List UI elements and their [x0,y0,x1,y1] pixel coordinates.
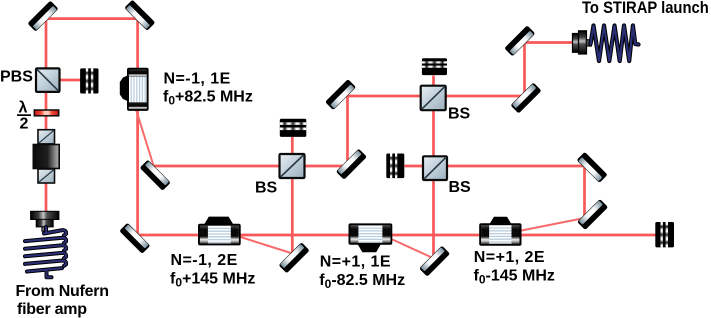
wire beam H3a M3 to BS1 to M7 [151,165,349,168]
svg-text:BS: BS [255,179,278,196]
AOM U2 (horizontal, N=-1 2E) [198,217,241,246]
mirror M2 second top [124,0,155,31]
wire beam V6 M9 to M10 [523,43,526,98]
wire beam V2 vertical through AOM1 [136,17,139,236]
fiber spool bottom left [25,227,66,277]
wire beam V4 M7 to M6 [346,95,349,166]
optical isolator body [33,145,59,169]
AOM U3 (horizontal, N=+1 1E) [349,223,393,252]
svg-text:fiber amp: fiber amp [17,301,87,318]
svg-text:f0+82.5 MHz: f0+82.5 MHz [163,88,253,107]
svg-text:N=+1, 1E: N=+1, 1E [320,253,391,270]
wire beam H6 long bottom horizontal [137,234,656,237]
beam dump D2 above BS1 (horizontal slats) [280,119,307,137]
AOM U1 (vertical, N=-1 1E) [120,68,149,111]
half-wave plate [34,110,58,116]
optical isolator output cube [38,169,55,183]
svg-text:N=-1, 2E: N=-1, 2E [171,252,238,269]
svg-text:f0-145 MHz: f0-145 MHz [474,268,555,287]
mirror M8 below BS3 [419,246,450,277]
label To STIRAP launch [582,0,709,17]
beam dump D3 above BS2 (horizontal slats) [422,58,447,75]
svg-text:f0+145 MHz: f0+145 MHz [170,270,255,289]
fiber coupler top right [573,31,592,54]
wire beam H3b D4 to BS3 to M11 [405,165,586,168]
beam splitter BS2 [421,86,446,111]
svg-text:BS: BS [449,179,472,196]
wire beam V7 M11 to M12 [583,166,586,219]
svg-text:2: 2 [20,116,29,133]
mirror M12 far right lower [577,199,608,230]
fiber coupler bottom left [31,211,59,231]
beam dump D1 right of PBS (vertical slats) [80,68,98,93]
mirror M7 mid lower [336,149,367,180]
wire beam Dg4 AOM4 first-order to M12 [519,218,585,231]
mirror M10 top right [504,25,535,56]
svg-text:λ: λ [19,100,28,117]
beams layer [46,17,657,258]
wire beam V3 D2 to BS1 to M5 [291,137,294,253]
svg-text:From Nufern: From Nufern [16,283,109,300]
beam splitter BS3 [423,156,447,180]
wire beam V1 left vertical through PBS/waveplate/isolator [45,19,48,212]
mirror M4 bottom-left [119,223,150,254]
mirror M5 below BS1 [279,242,310,273]
wire beam Dg3 AOM3 first-order to M8 [388,238,434,259]
svg-text:PBS: PBS [0,69,33,86]
beam dump D4 left of BS3 (vertical slats) [386,154,404,179]
mirror M3 below AOM1 [140,160,171,191]
svg-text:BS: BS [448,106,471,123]
beam splitter BS1 [280,154,305,178]
mirror M6 mid upper [325,79,356,110]
svg-text:N=-1, 1E: N=-1, 1E [164,71,231,88]
mirror M1 top-left [27,1,58,32]
wire beam H4 M6 to BS2 to M9 [346,95,524,98]
beam dump D5 far right (vertical slats) [655,222,674,247]
wire beam H1 top-left horizontal [46,17,138,20]
svg-text:f0-82.5 MHz: f0-82.5 MHz [319,272,405,291]
mirror M11 far right upper [577,152,608,183]
wire beam V5 D3 to BS2 to BS3 to M8 [432,76,435,259]
wire beam Dg2 AOM2 first-order to M5 [239,237,293,254]
PBS cube [36,68,60,92]
AOM U4 (horizontal, N=+1 2E) [479,217,521,246]
fiber coil top right [591,26,639,62]
optical isolator input cube [38,130,55,144]
wire beam H5 M10 to fiber coupler [525,41,577,44]
svg-text:N=+1, 2E: N=+1, 2E [474,249,545,266]
svg-text:To STIRAP launch: To STIRAP launch [582,0,709,17]
wire beam Dg1 AOM1 first-order to M3 [135,107,153,166]
wire beam H2 PBS to dump D1 [58,79,82,82]
mirror M9 right of BS2 [510,82,541,113]
